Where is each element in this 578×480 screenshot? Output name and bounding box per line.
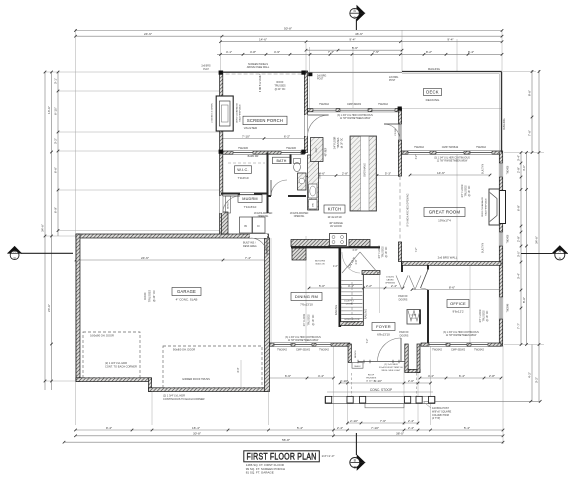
svg-text:3'-2″: 3'-2″ xyxy=(54,137,58,144)
svg-text:@ 16″ OC: @ 16″ OC xyxy=(312,314,315,325)
great room fireplace xyxy=(499,191,505,224)
dim bot row1 xyxy=(74,426,504,432)
dim right deck xyxy=(528,70,534,154)
svg-text:19'6x17'4: 19'6x17'4 xyxy=(438,219,451,223)
svg-text:4'-6″: 4'-6″ xyxy=(333,265,338,268)
svg-text:13'4x8'0 ARCHED: 13'4x8'0 ARCHED xyxy=(254,212,273,215)
label GARAGE xyxy=(172,288,201,296)
svg-text:MUDRM: MUDRM xyxy=(242,197,258,201)
svg-text:TW2642: TW2642 xyxy=(432,348,442,352)
porch fireplace xyxy=(216,96,233,131)
label KITCH xyxy=(324,205,345,213)
svg-text:OPENING: OPENING xyxy=(258,216,269,218)
svg-text:TW2642: TW2642 xyxy=(476,145,486,149)
svg-text:9/0x8/0 OH. DOOR: 9/0x8/0 OH. DOOR xyxy=(173,348,195,352)
wall nook east xyxy=(398,109,401,176)
svg-text:9'-0 HIGH ARCHED OPENING: 9'-0 HIGH ARCHED OPENING xyxy=(407,193,410,226)
wall entry pier east xyxy=(405,344,408,373)
svg-text:2x6 BRG: 2x6 BRG xyxy=(317,76,327,78)
svg-text:FOYER: FOYER xyxy=(376,324,391,329)
svg-text:2'-8″: 2'-8″ xyxy=(342,171,349,175)
svg-text:DECK: DECK xyxy=(426,90,438,95)
svg-text:ROOF: ROOF xyxy=(143,292,147,300)
svg-text:3'0x6'8 DR W/ TEMP GL: 3'0x6'8 DR W/ TEMP GL xyxy=(379,367,404,369)
corner posts xyxy=(219,71,223,75)
bench shelf niche xyxy=(352,363,363,369)
svg-text:7'10x6'10: 7'10x6'10 xyxy=(244,205,257,209)
dim right low1 xyxy=(528,345,532,402)
svg-text:GAS FIREPLACE: GAS FIREPLACE xyxy=(239,104,242,122)
svg-text:CMP-SDW2: CMP-SDW2 xyxy=(347,102,362,106)
svg-text:6'-6″: 6'-6″ xyxy=(54,166,58,173)
svg-text:CONTINUOUS TO EACH CORNER: CONTINUOUS TO EACH CORNER xyxy=(163,397,205,401)
svg-text:(3) 1 3/4″ LVL HDR CONTINUOUS: (3) 1 3/4″ LVL HDR CONTINUOUS xyxy=(434,158,470,160)
svg-text:3'-2″: 3'-2″ xyxy=(535,376,539,383)
svg-text:(4 TYP): (4 TYP) xyxy=(432,417,440,420)
svg-text:2'-8″: 2'-8″ xyxy=(355,259,358,264)
svg-text:38'-0″: 38'-0″ xyxy=(396,432,405,436)
svg-text:3'-1″: 3'-1″ xyxy=(54,77,58,84)
wall kitchen nook top xyxy=(308,109,400,112)
svg-text:OFFICE: OFFICE xyxy=(450,301,466,306)
dim bot row3 xyxy=(63,438,505,444)
wall screen porch top (screened) xyxy=(220,71,308,73)
svg-text:30'-8″: 30'-8″ xyxy=(193,432,202,436)
label MUDRM xyxy=(238,195,262,203)
svg-text:2'-4″: 2'-4″ xyxy=(408,426,415,430)
svg-text:TW2846: TW2846 xyxy=(508,303,510,312)
svg-text:ABOVE KNEE WALL: ABOVE KNEE WALL xyxy=(247,66,270,69)
svg-text:REF: REF xyxy=(315,147,318,152)
wall east exterior xyxy=(499,151,502,346)
svg-text:7'-4″: 7'-4″ xyxy=(245,256,252,260)
svg-text:24'-6″: 24'-6″ xyxy=(141,256,150,260)
svg-text:46'-6″: 46'-6″ xyxy=(355,32,364,36)
svg-text:2'-10″: 2'-10″ xyxy=(340,379,349,383)
section marker top xyxy=(350,5,365,30)
dim bot porch xyxy=(339,379,432,385)
svg-text:@ 16″ OC: @ 16″ OC xyxy=(486,310,489,321)
svg-text:5'-6″: 5'-6″ xyxy=(352,46,359,50)
svg-text:4″ CONC. SLAB: 4″ CONC. SLAB xyxy=(176,298,198,302)
svg-text:(3) 1 3/4″ LVL HDR CONTINUOUS: (3) 1 3/4″ LVL HDR CONTINUOUS xyxy=(337,115,373,117)
garage door dashed outlines xyxy=(83,332,140,378)
svg-text:48″ REF: 48″ REF xyxy=(326,147,328,156)
svg-text:6'-8″: 6'-8″ xyxy=(517,204,521,211)
svg-text:2'-8″: 2'-8″ xyxy=(517,166,521,173)
svg-text:VAULTED: VAULTED xyxy=(244,126,258,130)
svg-text:BARN DR: BARN DR xyxy=(248,155,259,158)
wall kitchen counter left xyxy=(291,240,330,247)
wall dining front xyxy=(270,343,350,346)
svg-text:4'-2″: 4'-2″ xyxy=(528,371,532,378)
svg-text:2x6 BRG: 2x6 BRG xyxy=(201,66,211,68)
bath sink xyxy=(298,173,307,190)
wall bath top xyxy=(223,151,305,154)
label W.I.C. xyxy=(235,166,252,174)
svg-text:14'-6″: 14'-6″ xyxy=(437,171,446,175)
svg-text:2-SIDED LG CRWN: 2-SIDED LG CRWN xyxy=(212,103,214,123)
svg-text:81 SQ. FT. GARAGE: 81 SQ. FT. GARAGE xyxy=(246,470,274,474)
svg-text:TW2436: TW2436 xyxy=(238,146,248,150)
svg-text:DOORS: DOORS xyxy=(399,298,408,301)
svg-text:2x6 BRG: 2x6 BRG xyxy=(389,77,399,79)
svg-text:3'-0″: 3'-0″ xyxy=(517,250,521,257)
fridge xyxy=(311,138,324,162)
stairs xyxy=(338,247,341,327)
svg-text:16/0x8/0 OH. DOOR: 16/0x8/0 OH. DOOR xyxy=(90,334,114,338)
svg-text:2'-4″: 2'-4″ xyxy=(337,426,344,430)
svg-text:16'-4″: 16'-4″ xyxy=(192,426,201,430)
svg-text:7'6x13'10: 7'6x13'10 xyxy=(300,303,313,307)
svg-text:GREAT ROOM: GREAT ROOM xyxy=(429,210,461,215)
dim garage dim xyxy=(75,256,270,262)
dim right inner xyxy=(517,151,523,346)
svg-text:RAILING: RAILING xyxy=(428,67,441,71)
range / island xyxy=(291,246,380,248)
wall laundry wall xyxy=(222,212,229,234)
svg-text:SINK: SINK xyxy=(319,173,322,179)
svg-text:TW2436: TW2436 xyxy=(286,146,296,150)
svg-text:DECKING: DECKING xyxy=(426,98,440,102)
svg-text:8'-0″: 8'-0″ xyxy=(237,367,240,372)
svg-text:KITCH: KITCH xyxy=(328,207,342,212)
svg-text:TW2642: TW2642 xyxy=(474,348,484,352)
svg-text:CMP-SDW2: CMP-SDW2 xyxy=(451,348,466,352)
wall office front xyxy=(421,343,501,346)
svg-text:OPENING: OPENING xyxy=(294,216,305,218)
svg-text:5'-3″: 5'-3″ xyxy=(385,171,392,175)
dim top row3 xyxy=(219,38,503,44)
svg-text:BATH: BATH xyxy=(276,159,286,163)
svg-text:CONT. TO EACH CORNER: CONT. TO EACH CORNER xyxy=(105,365,137,369)
svg-text:11'4x13'10: 11'4x13'10 xyxy=(327,215,341,219)
coat closet xyxy=(407,310,420,325)
dim right mid xyxy=(522,151,528,346)
wall butler cabinet xyxy=(292,248,306,260)
svg-text:ROOF: ROOF xyxy=(368,375,375,377)
svg-text:4'-4″: 4'-4″ xyxy=(428,374,435,378)
svg-text:OPENING: OPENING xyxy=(385,283,395,285)
kitchen counters xyxy=(308,155,319,210)
svg-text:6'-10″: 6'-10″ xyxy=(54,106,58,115)
dim gr dim xyxy=(409,171,492,177)
svg-text:6'-6″: 6'-6″ xyxy=(285,374,292,378)
wall garage west xyxy=(76,234,80,382)
wall garage front left xyxy=(76,378,152,382)
extension lines xyxy=(75,29,77,425)
windows xyxy=(313,109,336,112)
svg-text:TW2436: TW2436 xyxy=(508,165,510,174)
svg-text:11 7/8″ RIM BETWEEN WDW: 11 7/8″ RIM BETWEEN WDW xyxy=(437,161,468,163)
dim left row2 xyxy=(47,71,53,390)
svg-text:TW2436: TW2436 xyxy=(508,234,510,243)
svg-text:2'-2″: 2'-2″ xyxy=(366,284,373,288)
svg-text:CMP-SDW2: CMP-SDW2 xyxy=(296,348,311,352)
svg-text:POST: POST xyxy=(317,79,324,81)
wall bearing wall xyxy=(402,262,501,266)
svg-text:13'4x8'0 ARCHED: 13'4x8'0 ARCHED xyxy=(290,212,309,215)
dim hall dim xyxy=(308,284,405,290)
svg-text:CONC. STOOP: CONC. STOOP xyxy=(370,388,392,392)
svg-text:3'-4″: 3'-4″ xyxy=(517,154,521,161)
svg-text:56'-8″: 56'-8″ xyxy=(282,438,291,442)
title block xyxy=(244,451,319,462)
svg-text:13'4x8'0: 13'4x8'0 xyxy=(386,277,395,279)
svg-text:GARAGE: GARAGE xyxy=(177,289,196,294)
svg-text:DESK AREA: DESK AREA xyxy=(243,245,257,248)
svg-text:COAT: COAT xyxy=(411,314,418,317)
section marker bottom xyxy=(350,433,366,471)
toilet xyxy=(294,159,301,164)
svg-text:2'-4″: 2'-4″ xyxy=(408,419,415,423)
svg-text:5'-4″: 5'-4″ xyxy=(297,426,304,430)
wall screen porch right xyxy=(304,71,307,153)
svg-text:WDW SEAT W/: WDW SEAT W/ xyxy=(344,321,359,324)
svg-text:DINING RM: DINING RM xyxy=(295,294,318,299)
svg-text:9'-4″: 9'-4″ xyxy=(349,38,356,42)
svg-text:CLOS: CLOS xyxy=(411,318,417,320)
svg-text:@ 16″ OC: @ 16″ OC xyxy=(468,185,471,196)
svg-text:(2) 1 3/4″ LVL HDR: (2) 1 3/4″ LVL HDR xyxy=(163,394,185,398)
svg-text:6'-2″: 6'-2″ xyxy=(284,134,291,138)
svg-text:RAILING: RAILING xyxy=(334,305,338,315)
dim bot row2 xyxy=(74,432,504,438)
label GREAT ROOM xyxy=(424,208,465,217)
dim top row2 xyxy=(74,32,503,38)
svg-text:6'-9″: 6'-9″ xyxy=(54,206,58,213)
svg-text:2'-8″: 2'-8″ xyxy=(517,235,521,242)
svg-text:9'6x12'2: 9'6x12'2 xyxy=(453,310,464,314)
svg-text:CMP-TW2642: CMP-TW2642 xyxy=(442,145,459,149)
wall kitchen counter right xyxy=(349,240,370,247)
svg-text:PLAT: PLAT xyxy=(203,68,209,71)
svg-text:2'-8″: 2'-8″ xyxy=(489,374,496,378)
svg-text:2x6 BRG WALL: 2x6 BRG WALL xyxy=(438,255,458,259)
deck railing xyxy=(402,71,502,73)
svg-text:WDSL SIDE LIGHT: WDSL SIDE LIGHT xyxy=(381,370,401,372)
label DINING RM xyxy=(291,293,322,301)
svg-text:@ 24″ OC: @ 24″ OC xyxy=(366,381,376,383)
svg-text:RAILING: RAILING xyxy=(502,118,506,129)
svg-text:ZERO CLEARANCE: ZERO CLEARANCE xyxy=(481,196,484,217)
dim top row5 xyxy=(217,50,503,56)
svg-text:6'-8″: 6'-8″ xyxy=(353,249,358,252)
svg-text:3'-2″: 3'-2″ xyxy=(416,155,418,160)
svg-text:TRUSSES: TRUSSES xyxy=(366,378,377,380)
svg-text:TW2642: TW2642 xyxy=(319,348,329,352)
label OFFICE xyxy=(447,300,469,308)
doors xyxy=(250,234,267,238)
svg-text:9'-4″: 9'-4″ xyxy=(106,426,113,430)
svg-text:@ 24″ OC: @ 24″ OC xyxy=(275,88,286,91)
svg-text:POST: POST xyxy=(389,80,396,82)
svg-text:HDWD FLOOR: HDWD FLOOR xyxy=(345,319,360,321)
svg-text:BUILT-IN: BUILT-IN xyxy=(482,243,485,253)
svg-text:W.I.C.: W.I.C. xyxy=(237,168,249,172)
svg-text:4'-0″: 4'-0″ xyxy=(522,164,526,171)
svg-text:(3) 1 3/4″ LVL HDR CONTINUOUS: (3) 1 3/4″ LVL HDR CONTINUOUS xyxy=(285,337,321,339)
dim left overall xyxy=(41,71,47,390)
svg-text:@ 24″ OC: @ 24″ OC xyxy=(152,290,156,302)
svg-text:TRUSSES: TRUSSES xyxy=(338,137,340,148)
stoop xyxy=(327,391,433,393)
svg-text:7'-6″: 7'-6″ xyxy=(380,419,387,423)
label BATH xyxy=(273,157,291,164)
svg-text:7'-5″: 7'-5″ xyxy=(373,50,380,54)
svg-text:4'-9″: 4'-9″ xyxy=(274,50,281,54)
dim stoop dim xyxy=(346,419,419,425)
svg-text:11 7/8″ RIM BETWEEN WDW: 11 7/8″ RIM BETWEEN WDW xyxy=(446,335,477,337)
roof edge line over nook xyxy=(308,71,402,73)
dim kitchen dim xyxy=(307,171,402,177)
wall entry pier west xyxy=(348,344,351,363)
svg-text:TW2642: TW2642 xyxy=(319,102,329,106)
dim bot dining xyxy=(267,374,335,380)
svg-text:7'3x9'10: 7'3x9'10 xyxy=(238,176,249,180)
svg-text:DOORS: DOORS xyxy=(400,334,409,337)
svg-text:7'-10″: 7'-10″ xyxy=(242,134,251,138)
section marker left xyxy=(7,246,73,261)
svg-text:7'-6″: 7'-6″ xyxy=(528,129,532,136)
svg-text:FIRST FLOOR PLAN: FIRST FLOOR PLAN xyxy=(247,451,317,461)
label FOYER xyxy=(372,323,395,331)
svg-text:6 OR 5/12 VAULT: 6 OR 5/12 VAULT xyxy=(259,73,262,92)
svg-text:W/ HOOD: W/ HOOD xyxy=(330,224,342,228)
svg-text:7'-10″: 7'-10″ xyxy=(371,426,380,430)
dim top overall xyxy=(74,26,503,32)
svg-text:(3) 1 3/4″ LVL HDR CONTINUOUS: (3) 1 3/4″ LVL HDR CONTINUOUS xyxy=(443,332,479,334)
wall stair landing xyxy=(340,322,364,326)
dim top row4 xyxy=(305,46,404,52)
svg-text:9'-4″: 9'-4″ xyxy=(447,38,454,42)
svg-text:11 7/8″ RIM BETWEEN WDW: 11 7/8″ RIM BETWEEN WDW xyxy=(340,118,371,120)
svg-text:3/4″ FLOOR: 3/4″ FLOOR xyxy=(335,136,337,149)
svg-text:BUILT-IN: BUILT-IN xyxy=(316,264,325,266)
bench xyxy=(226,196,231,213)
wall entry niche east xyxy=(417,344,420,373)
svg-text:8'-6″: 8'-6″ xyxy=(528,89,532,96)
svg-text:50'-8″: 50'-8″ xyxy=(284,26,293,30)
svg-text:2'-0″: 2'-0″ xyxy=(408,379,415,383)
svg-text:8'-2″: 8'-2″ xyxy=(426,50,433,54)
wall great room west stub xyxy=(398,242,401,262)
svg-text:6'8x13'10: 6'8x13'10 xyxy=(377,333,390,337)
wall great room top xyxy=(402,151,501,154)
label DECK xyxy=(424,89,442,96)
svg-text:5'-4″: 5'-4″ xyxy=(464,426,471,430)
label SCREEN PORCH xyxy=(243,116,287,125)
svg-text:1/4″=1'-0″: 1/4″=1'-0″ xyxy=(322,454,335,458)
svg-text:GIRDER ROOF TRUSS: GIRDER ROOF TRUSS xyxy=(182,377,210,381)
interior walls xyxy=(267,153,269,214)
washer dryer xyxy=(240,217,253,233)
wall screen porch left xyxy=(220,71,223,153)
wall entry niche bottom xyxy=(408,369,420,372)
svg-text:8'-6″: 8'-6″ xyxy=(522,296,526,303)
svg-text:7'-2″: 7'-2″ xyxy=(366,338,369,343)
dim porch dim xyxy=(220,134,308,140)
svg-text:8'-6″: 8'-6″ xyxy=(449,285,456,289)
svg-text:34'-6″: 34'-6″ xyxy=(41,223,45,232)
wall garage jog xyxy=(149,378,152,392)
svg-text:BUILT-IN: BUILT-IN xyxy=(482,164,485,174)
svg-text:OVERHANG: OVERHANG xyxy=(363,163,366,177)
svg-text:4'-1″: 4'-1″ xyxy=(226,50,233,54)
svg-text:6'-4″: 6'-4″ xyxy=(459,374,466,378)
svg-text:(2) 1 3/4″ LVL HDR: (2) 1 3/4″ LVL HDR xyxy=(105,361,127,365)
svg-text:24'-6″: 24'-6″ xyxy=(144,32,153,36)
dim bot right dim xyxy=(424,400,542,403)
svg-text:TW2642: TW2642 xyxy=(414,145,424,149)
svg-text:13'-6″: 13'-6″ xyxy=(47,105,51,114)
svg-text:7'-2″: 7'-2″ xyxy=(416,248,418,253)
svg-text:4'-4″: 4'-4″ xyxy=(318,374,325,378)
svg-text:TRUSSES: TRUSSES xyxy=(308,314,311,326)
svg-text:ZERO CLEARANCE: ZERO CLEARANCE xyxy=(236,102,239,123)
svg-text:@ 16″ OC: @ 16″ OC xyxy=(342,137,344,148)
wall garage top xyxy=(76,234,269,238)
svg-text:5'-0″: 5'-0″ xyxy=(319,284,326,288)
dim bot office xyxy=(419,374,503,380)
svg-text:11 7/8″ RIM BETWEEN WDW: 11 7/8″ RIM BETWEEN WDW xyxy=(288,340,319,342)
svg-text:15x8 PKT: 15x8 PKT xyxy=(344,301,354,303)
svg-text:RAILING: RAILING xyxy=(363,309,367,319)
svg-text:24″ FLOOR: 24″ FLOOR xyxy=(303,314,306,327)
svg-text:W: W xyxy=(244,224,247,228)
section marker right xyxy=(521,245,568,261)
svg-text:STOR. BELOW: STOR. BELOW xyxy=(344,325,360,327)
hall double door swing X xyxy=(342,252,360,273)
dim office dim xyxy=(411,285,503,291)
svg-text:TW2642: TW2642 xyxy=(277,348,287,352)
svg-text:FR DR: FR DR xyxy=(395,128,397,135)
svg-text:GAS FIREPLACE: GAS FIREPLACE xyxy=(485,198,488,216)
svg-text:7'-3″: 7'-3″ xyxy=(328,50,335,54)
svg-text:CASED: CASED xyxy=(386,279,394,282)
svg-text:DOOR: DOOR xyxy=(346,304,353,306)
svg-text:BENCH: BENCH xyxy=(355,350,357,358)
svg-text:TRUSSES: TRUSSES xyxy=(148,290,152,303)
svg-text:14'-6″: 14'-6″ xyxy=(259,38,268,42)
svg-text:BENCH: BENCH xyxy=(228,201,230,209)
svg-text:2'-10″: 2'-10″ xyxy=(350,419,359,423)
dim right outer xyxy=(535,70,541,401)
svg-text:SCREEN PORCH: SCREEN PORCH xyxy=(247,118,283,123)
svg-text:@ 16″ OC: @ 16″ OC xyxy=(385,246,388,257)
svg-text:SHELF: SHELF xyxy=(354,366,361,368)
wall garage front right xyxy=(149,388,268,392)
wall garage east xyxy=(265,238,270,392)
wall mud west xyxy=(220,153,223,237)
svg-text:8'-4″: 8'-4″ xyxy=(468,50,475,54)
svg-text:24'-6″: 24'-6″ xyxy=(47,303,51,312)
svg-text:34'-6″: 34'-6″ xyxy=(535,235,539,244)
svg-text:4'-8″: 4'-8″ xyxy=(250,50,257,54)
dim left row3 xyxy=(54,71,60,236)
svg-text:BUTLERS: BUTLERS xyxy=(315,261,326,263)
svg-text:TW2642: TW2642 xyxy=(378,102,388,106)
svg-text:3'-4″: 3'-4″ xyxy=(517,272,521,279)
svg-text:7'-7″: 7'-7″ xyxy=(517,322,521,329)
svg-text:(2) 2x10 HDR: (2) 2x10 HDR xyxy=(384,364,398,366)
kitchen island xyxy=(350,136,377,211)
wall hall wall xyxy=(362,271,380,275)
